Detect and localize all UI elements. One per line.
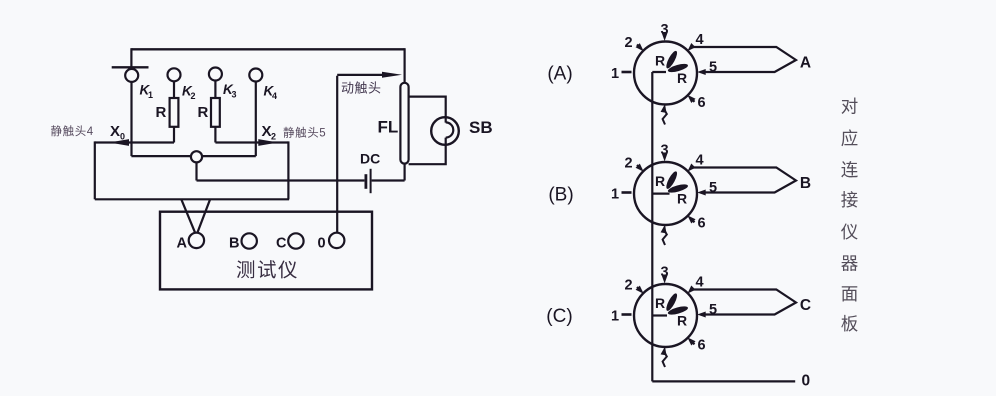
holder circle B <box>634 162 697 225</box>
contact tick 3 <box>663 153 665 158</box>
svg-text:2: 2 <box>624 35 632 51</box>
starter SB glow-switch bulge <box>446 122 454 137</box>
svg-text:6: 6 <box>697 95 705 111</box>
svg-text:A: A <box>800 55 811 72</box>
svg-text:动触头: 动触头 <box>341 81 382 96</box>
contact tick 4 arrow <box>685 285 695 295</box>
wire: FL to SB bottom <box>409 138 446 165</box>
svg-text:测试仪: 测试仪 <box>236 260 299 282</box>
X0 moving-contact arrow <box>109 139 129 146</box>
svg-text:2: 2 <box>191 91 196 101</box>
svg-text:A: A <box>177 236 188 252</box>
wire: K4 to bottom rail <box>255 82 257 157</box>
lamp-end pointer to C <box>692 290 797 315</box>
wire: K1 to bottom rail <box>130 82 132 156</box>
wire: R1 tail to X0 wire <box>173 127 175 143</box>
svg-text:接: 接 <box>841 190 859 210</box>
svg-text:R: R <box>677 191 687 207</box>
bottom squiggle contact arrow <box>663 230 667 246</box>
svg-text:DC: DC <box>360 151 380 167</box>
wire: holder C center stub <box>652 314 667 316</box>
svg-text:板: 板 <box>841 314 859 334</box>
holder circle C <box>634 284 697 347</box>
wiper contact blades <box>664 292 679 312</box>
svg-text:B: B <box>229 236 239 252</box>
svg-text:X: X <box>110 123 120 140</box>
wiper contact blades <box>664 170 679 190</box>
junction node circle <box>191 151 202 162</box>
contact tick 3 <box>663 275 665 280</box>
wire: K2 to R1 <box>173 81 175 98</box>
wire: common riser through holders <box>652 72 666 381</box>
fluorescent tube FL <box>400 83 408 164</box>
battery DC long plate <box>370 169 372 193</box>
wire: top bus <box>131 48 404 50</box>
terminal C <box>288 233 303 248</box>
contact tick 1 <box>622 313 632 316</box>
contact tick 3 <box>663 32 665 37</box>
svg-text:应: 应 <box>841 128 859 148</box>
svg-text:3: 3 <box>660 265 668 281</box>
terminal A <box>189 233 204 248</box>
X2 moving-contact arrow <box>258 139 278 146</box>
contact tick 5 arrow <box>697 190 706 196</box>
svg-text:静触头4: 静触头4 <box>51 124 94 138</box>
svg-text:6: 6 <box>697 215 705 231</box>
svg-text:4: 4 <box>695 32 703 48</box>
lamp-end pointer to B <box>692 168 797 193</box>
wire: bottom neutral lead <box>652 380 795 382</box>
tester box <box>160 212 372 290</box>
svg-text:2: 2 <box>271 132 276 142</box>
resistor R2 <box>211 98 220 127</box>
svg-text:对: 对 <box>841 97 859 117</box>
wire: K3 to R2 <box>214 81 216 99</box>
starter SB outer circle <box>431 117 459 145</box>
svg-text:R: R <box>156 104 167 121</box>
lamp-end pointer to A <box>692 47 797 72</box>
svg-text:1: 1 <box>148 90 153 100</box>
wire: junction stub down <box>195 162 197 180</box>
svg-text:R: R <box>655 295 665 311</box>
bottom squiggle contact arrow <box>663 352 667 368</box>
switch K2 contact circle <box>168 68 181 81</box>
svg-text:B: B <box>800 175 811 192</box>
contact tick 1 <box>622 191 632 194</box>
resistor R1 <box>170 98 179 127</box>
svg-text:0: 0 <box>318 236 326 252</box>
wire: drop from top bus to FL <box>404 48 406 83</box>
svg-text:R: R <box>198 104 209 121</box>
wire: drop from top bus to K1 <box>130 48 132 69</box>
wire: left drop of U-link <box>94 141 96 199</box>
wire: V arms into terminal A <box>181 199 210 233</box>
switch K4 contact circle <box>249 69 262 82</box>
rotary lamp-holder contact set (C) <box>611 265 811 368</box>
svg-text:1: 1 <box>611 186 619 202</box>
battery DC short plate <box>364 174 367 189</box>
svg-text:X: X <box>262 123 272 140</box>
svg-text:6: 6 <box>697 337 705 353</box>
svg-text:C: C <box>800 297 811 314</box>
svg-text:3: 3 <box>232 90 237 100</box>
holder circle A <box>634 42 697 105</box>
wire: moving contact lead <box>337 74 383 76</box>
rotary lamp-holder contact set (A) <box>611 22 811 125</box>
contact tick 2 <box>637 165 642 170</box>
contact tick 5 arrow <box>697 312 706 318</box>
contact tick 4 arrow <box>685 163 695 173</box>
svg-text:1: 1 <box>611 66 619 82</box>
wire: R2 tail <box>214 127 216 143</box>
svg-text:R: R <box>655 173 665 189</box>
wire: U-link bottom <box>95 198 289 200</box>
wire: FL to SB top <box>409 97 446 123</box>
svg-text:R: R <box>677 70 687 86</box>
svg-text:3: 3 <box>660 22 668 38</box>
svg-text:(B): (B) <box>548 185 573 206</box>
svg-text:(C): (C) <box>546 306 572 327</box>
svg-text:连: 连 <box>841 160 859 180</box>
svg-text:(A): (A) <box>547 64 572 85</box>
svg-text:静触头5: 静触头5 <box>283 126 326 140</box>
contact tick 2 <box>637 287 642 292</box>
svg-text:4: 4 <box>695 153 703 169</box>
switch K1 static bar <box>112 66 149 68</box>
terminal B <box>242 233 257 248</box>
rotary lamp-holder contact set (B) <box>611 143 811 246</box>
svg-text:R: R <box>655 53 665 69</box>
svg-text:器: 器 <box>841 254 859 274</box>
switch K1 contact circle <box>125 69 138 82</box>
wire: O terminal riser <box>336 76 338 233</box>
contact tick 6 <box>690 340 695 345</box>
contact tick 6 <box>690 97 695 102</box>
contact tick 1 <box>622 71 632 74</box>
svg-text:仪: 仪 <box>841 222 859 242</box>
contact tick 6 <box>690 218 695 223</box>
svg-text:4: 4 <box>272 91 277 101</box>
contact tick 4 arrow <box>685 43 695 53</box>
contact tick 5 arrow <box>697 69 706 75</box>
wire: bottom rail under K switches <box>131 155 255 157</box>
wire: right drop of U-link <box>287 141 289 199</box>
svg-text:2: 2 <box>624 278 632 294</box>
wire: X2 static-contact wire <box>215 141 288 143</box>
svg-text:1: 1 <box>611 308 619 324</box>
terminal O <box>329 233 344 248</box>
wire: long rail to battery and FL <box>197 163 405 181</box>
contact tick 2 <box>637 45 642 50</box>
svg-text:0: 0 <box>801 373 810 390</box>
svg-text:4: 4 <box>695 275 703 291</box>
svg-text:C: C <box>276 236 287 252</box>
wiper contact blades <box>664 49 679 69</box>
svg-text:面: 面 <box>841 284 859 304</box>
svg-text:SB: SB <box>469 118 493 137</box>
svg-text:2: 2 <box>624 156 632 172</box>
bottom squiggle contact arrow <box>663 109 667 125</box>
switch K3 contact circle <box>209 68 222 81</box>
svg-text:FL: FL <box>378 118 399 137</box>
wire: X0 static-contact wire <box>95 141 174 143</box>
svg-text:0: 0 <box>120 132 125 142</box>
moving contact arrow <box>382 72 402 78</box>
wire: holder B center stub <box>652 193 669 195</box>
svg-text:3: 3 <box>660 143 668 159</box>
svg-text:R: R <box>677 313 687 329</box>
